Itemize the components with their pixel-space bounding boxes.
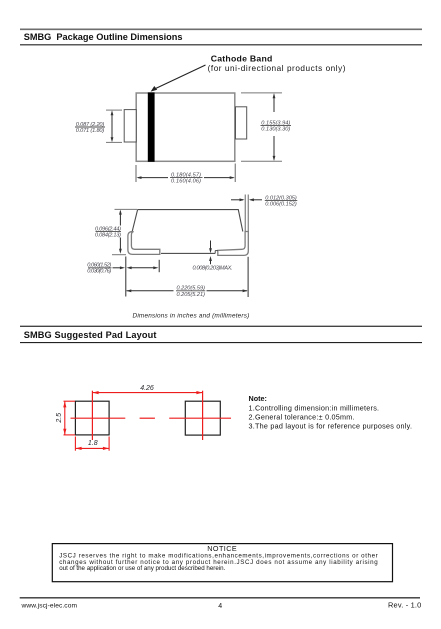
svg-text:Rev. - 1.0: Rev. - 1.0 [388,600,422,609]
svg-text:0.030(0.76): 0.030(0.76) [87,269,111,275]
notice box [52,544,392,582]
left terminal tab [124,110,136,142]
svg-text:4: 4 [218,603,222,610]
svg-text:4.26: 4.26 [140,385,154,392]
dim: tab height 0.087/0.071 (left of top view) [75,110,122,142]
pad layout: left pad [75,401,109,435]
svg-text:1.8: 1.8 [88,440,98,447]
side view: molded body outline [132,210,243,254]
pad layout: dim 2.5 (red pad height) [56,401,75,435]
svg-text:0.006(0.152): 0.006(0.152) [265,201,297,207]
section 1 title text [24,32,183,42]
dim: body height 0.096/0.084 (left of side view) [95,209,137,254]
svg-text:0.130(3.30): 0.130(3.30) [261,126,290,132]
header rule top (section 2) [20,325,422,327]
footer rule [20,597,420,599]
side view: right lead (gull-wing strip) with extended thickness lines [218,195,249,256]
pad layout: right pad [185,401,220,435]
caption: dimensions in inches [133,313,250,320]
svg-text:SMBG Suggested Pad Layout: SMBG Suggested Pad Layout [24,330,157,340]
pad layout: left pad centerlines (red) [71,391,126,440]
header rule top (section 1) [20,28,422,30]
svg-text:2.5: 2.5 [56,413,63,424]
svg-text:2.General tolerance:± 0.05mm.: 2.General tolerance:± 0.05mm. [249,413,355,422]
side view: left lead (gull-wing strip) [128,232,160,255]
side view: seating-plane step under right lead [215,251,218,254]
header rule bottom (section 2) [20,342,422,344]
svg-text:Note:: Note: [249,394,267,403]
svg-text:0.205(5.21): 0.205(5.21) [176,292,205,298]
svg-text:3.The pad layout is for refere: 3.The pad layout is for reference purpos… [249,422,413,431]
svg-text:0.084(2.13): 0.084(2.13) [95,232,121,238]
dim: overall width 0.220/0.205 (bottom of side view) [126,257,248,298]
dim: body height 0.155/0.130 (right of top view) [241,93,291,161]
svg-text:out of the application or use: out of the application or use of any pro… [59,565,225,572]
svg-text:Cathode Band: Cathode Band [211,53,273,63]
notice body text [59,553,378,572]
pad layout: dim 4.26 (red pitch dimension) [92,385,202,394]
right terminal tab [236,107,247,139]
svg-text:NOTICE: NOTICE [207,544,237,553]
svg-text:0.220(5.59): 0.220(5.59) [176,286,205,292]
svg-text:1.Controlling dimension:in mil: 1.Controlling dimension:in millimeters. [249,403,380,412]
leader line to cathode band [151,65,206,92]
pad layout: right pad centerlines (red) [169,391,231,440]
svg-text:www.jscj-elec.com: www.jscj-elec.com [21,602,78,609]
dim: lead thickness 0.012/0.006 (top right of side view) [231,195,297,207]
svg-text:0.071 (1.80): 0.071 (1.80) [76,128,105,134]
pad layout: dim 1.8 (red pad width) [75,437,109,451]
svg-text:0.008(0.203)MAX.: 0.008(0.203)MAX. [193,265,233,271]
pad layout: center dashed line (red) [140,417,155,419]
top view body [136,93,235,161]
svg-text:SMBG Package Outline Dimensio: SMBG Package Outline Dimensions [24,32,183,42]
cathode band label [208,53,346,73]
dim: lead foot length 0.060/0.030 (lower left of side view) [87,257,159,297]
cathode band (black bar) [148,92,155,161]
dim: body width 0.180/0.160 (below top view) [136,164,235,185]
header rule bottom (section 1) [20,44,422,46]
svg-text:(for uni-directional products: (for uni-directional products only) [208,64,346,73]
svg-text:0.160(4.06): 0.160(4.06) [171,179,201,185]
section 2 title text [24,330,157,340]
footer text [21,600,422,609]
svg-text:Dimensions in inches and (mill: Dimensions in inches and (millimeters) [133,313,250,320]
note block [249,394,413,431]
dim: standoff 0.008 MAX (center bottom of side view) [193,241,233,272]
